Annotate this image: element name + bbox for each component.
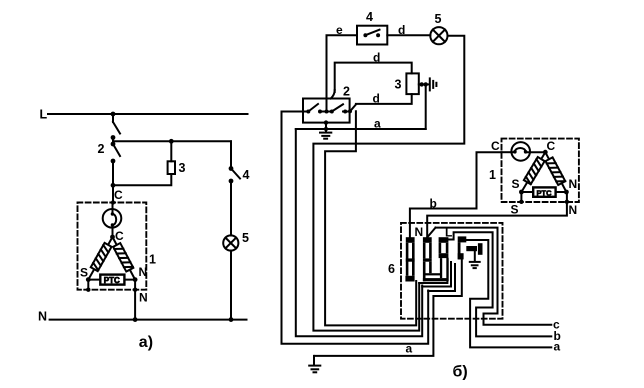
wire heater bottom to thermostat	[356, 94, 412, 104]
svg-text:3: 3	[395, 78, 402, 92]
wire d thermostat to heater 3	[335, 63, 412, 92]
svg-text:3: 3	[179, 161, 186, 175]
switch 4 top contact	[229, 166, 234, 171]
junction on L line	[111, 112, 116, 117]
switch 4b blade	[365, 30, 379, 36]
run winding b (right)	[545, 152, 566, 192]
thick plug link at T4	[466, 243, 482, 255]
junction dot heater right 1	[420, 82, 424, 86]
svg-text:а): а)	[139, 334, 153, 351]
svg-text:S: S	[80, 266, 88, 280]
svg-text:2: 2	[98, 142, 105, 156]
svg-text:N: N	[415, 225, 424, 239]
svg-text:N: N	[139, 291, 148, 305]
contact dot b2-4 edge	[348, 109, 352, 113]
wire e segment	[327, 35, 358, 111]
ground bottom left	[309, 356, 320, 372]
svg-text:б): б)	[453, 364, 468, 381]
switch 2 lower contact	[111, 142, 116, 147]
switch 4b left contact	[363, 33, 367, 37]
wire box2 right contact down	[325, 111, 416, 325]
wire switch 4 to lamp 5	[230, 181, 232, 236]
svg-text:a: a	[406, 342, 413, 356]
wire ground stub box2	[325, 123, 327, 133]
wire c run from T2 blade to exit	[436, 228, 552, 325]
overload protector b	[502, 142, 546, 161]
contact dot b2-1	[306, 110, 310, 114]
svg-text:N: N	[38, 310, 47, 324]
node C motor	[110, 235, 115, 240]
blade b2-1	[308, 104, 318, 112]
wire N to N line	[134, 280, 136, 320]
node C motor b	[543, 150, 548, 155]
wire S stub b	[520, 192, 522, 202]
junction dot heater right 2	[424, 82, 428, 86]
svg-text:d: d	[373, 92, 380, 106]
wire lamp right down to bottom	[313, 36, 464, 331]
heater 3	[406, 73, 418, 94]
node S	[86, 277, 91, 282]
junction e wire contact	[325, 110, 329, 114]
wire resistor bottom lead	[113, 174, 171, 185]
svg-text:S: S	[512, 177, 520, 191]
wire heater junction down to a-wire	[425, 84, 427, 129]
wire b top from T1 to motor C	[410, 152, 502, 237]
wire branch to resistor 3 and switch 4	[113, 140, 231, 142]
switch box 4	[357, 26, 387, 45]
svg-text:C: C	[114, 188, 123, 202]
junction motor N line	[133, 317, 138, 322]
overload protector circle	[103, 203, 122, 238]
junction at dashed top	[111, 200, 115, 204]
staircase inside box6 from T3 bottom	[419, 258, 447, 283]
lamp 5b	[430, 27, 447, 44]
wire motor N to T2	[427, 192, 567, 237]
PTC relay	[100, 275, 124, 285]
terminal T4	[458, 236, 467, 259]
svg-text:PTC: PTC	[537, 188, 553, 197]
staircase inside box6 mid	[422, 262, 451, 287]
ground inside box 6	[470, 251, 480, 268]
wire a down (nested v2)	[296, 129, 422, 336]
terminal T1	[405, 237, 414, 281]
svg-text:4: 4	[366, 10, 373, 24]
motor unit 1 dashed box	[78, 203, 147, 290]
svg-text:N: N	[569, 203, 578, 217]
terminal T3	[439, 237, 449, 258]
run winding (right, hatched)	[113, 237, 136, 280]
svg-text:b: b	[430, 197, 437, 211]
wire T4 staircase to exit a	[466, 240, 551, 347]
node S b	[519, 190, 524, 195]
contact dot b2-2	[318, 110, 322, 114]
blade hook above box 2	[331, 90, 335, 99]
motor 1b dashed box	[502, 139, 579, 202]
switch 2 lower blade	[113, 144, 120, 156]
junction ground a-wire	[324, 127, 328, 131]
contact dot b2-2b pivot	[330, 110, 334, 114]
wire N line	[50, 319, 247, 321]
PTC relay b	[533, 187, 555, 197]
switch 2 mid contact	[111, 135, 116, 140]
wire box4 to lamp	[387, 34, 430, 36]
wire contact seg mid	[327, 111, 332, 113]
wire mid segment	[112, 138, 114, 145]
svg-text:C: C	[491, 139, 500, 153]
node N motor	[133, 277, 138, 282]
wire L line	[48, 113, 248, 115]
wire L terminal staircase to exit b	[448, 232, 551, 336]
svg-text:5: 5	[435, 12, 442, 26]
thermostat box 2	[303, 99, 350, 123]
wire S stub to box edge	[87, 280, 89, 290]
wire S to N through PTC b	[521, 191, 566, 193]
svg-text:C: C	[547, 139, 556, 153]
start winding b (left)	[521, 152, 545, 192]
wire box2 left down (nested v1)	[282, 112, 429, 344]
switch 4 bottom contact	[229, 179, 234, 184]
thick link T2 to T3 (mating socket)	[423, 258, 449, 281]
contact dot b2-3	[343, 110, 347, 114]
junction resistor bottom return	[111, 183, 116, 188]
pin S edge b	[519, 200, 523, 204]
pin N edge b	[565, 200, 569, 204]
switch 2 bottom contact	[111, 159, 116, 164]
junction lamp N line	[229, 317, 234, 322]
wire branch to switch 4	[230, 141, 232, 168]
ground under box 2	[320, 133, 331, 139]
wire a horizontal	[296, 128, 426, 130]
wire S to N through PTC	[88, 279, 135, 281]
wire resistor top lead	[170, 141, 172, 161]
wire contact seg right	[343, 111, 350, 113]
wire left entry box2	[282, 111, 309, 113]
ground sideways at heater	[430, 78, 437, 90]
blade b2-3 to d wire	[350, 105, 356, 112]
switch 4 blade	[231, 169, 240, 179]
wire from L to switch 2	[112, 114, 114, 122]
svg-text:6: 6	[388, 262, 395, 276]
staircase inside box6 from v1	[428, 264, 455, 291]
junction branch resistor	[169, 139, 174, 144]
junction box2 bottom	[324, 120, 328, 124]
svg-text:1: 1	[489, 168, 496, 182]
blade T2 to c-wire	[428, 228, 436, 237]
switch 2 upper blade	[113, 122, 120, 134]
lamp 5	[223, 235, 238, 250]
pin N at box edge	[133, 288, 137, 292]
wire heater right junction	[419, 83, 429, 85]
svg-text:5: 5	[242, 231, 249, 245]
svg-text:S: S	[511, 203, 519, 217]
terminal T2	[423, 237, 432, 261]
wire contact seg	[320, 111, 327, 113]
wire switch2 to node C	[112, 161, 114, 203]
svg-text:4: 4	[243, 168, 250, 182]
start winding (left, hatched)	[88, 237, 112, 280]
svg-text:2: 2	[343, 85, 350, 99]
svg-text:N: N	[139, 265, 148, 279]
svg-text:1: 1	[149, 253, 156, 267]
svg-text:C: C	[115, 229, 124, 243]
pin S at box edge	[86, 288, 90, 292]
wire lamp to N line	[230, 251, 232, 320]
resistor 3	[168, 161, 175, 174]
svg-text:PTC: PTC	[104, 276, 120, 285]
switch 4b right contact	[376, 33, 380, 37]
svg-text:N: N	[569, 177, 578, 191]
terminal box 6 dashed	[401, 223, 503, 319]
wire ground bottom run	[315, 259, 462, 356]
blade b2-2	[332, 104, 343, 111]
node N b	[564, 190, 569, 195]
svg-text:a: a	[554, 340, 561, 354]
svg-text:L: L	[40, 107, 48, 121]
